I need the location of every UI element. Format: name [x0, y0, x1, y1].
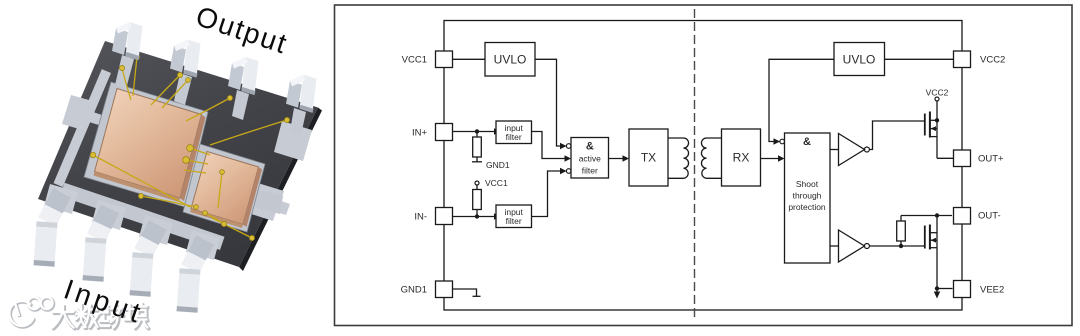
- svg-text:GND1: GND1: [401, 285, 427, 296]
- svg-text:&: &: [803, 136, 811, 148]
- svg-text:active: active: [579, 154, 601, 164]
- svg-text:Output: Output: [192, 0, 292, 59]
- svg-text:filter: filter: [506, 216, 522, 226]
- svg-text:VEE2: VEE2: [980, 285, 1004, 296]
- svg-text:Shoot: Shoot: [796, 179, 819, 189]
- svg-text:through: through: [793, 191, 822, 201]
- svg-text:TX: TX: [641, 151, 656, 165]
- svg-text:VCC1: VCC1: [402, 55, 427, 66]
- svg-text:RX: RX: [733, 151, 750, 165]
- svg-text:filter: filter: [506, 132, 522, 142]
- svg-text:UVLO: UVLO: [843, 53, 876, 67]
- svg-text:OUT-: OUT-: [978, 211, 1001, 222]
- svg-text:OUT+: OUT+: [978, 154, 1004, 165]
- svg-text:VCC2: VCC2: [980, 55, 1005, 66]
- svg-text:GND1: GND1: [486, 160, 510, 170]
- svg-text:UVLO: UVLO: [494, 53, 527, 67]
- svg-text:&: &: [586, 141, 594, 153]
- svg-text:protection: protection: [788, 202, 826, 212]
- svg-text:filter: filter: [582, 166, 598, 176]
- svg-text:VCC1: VCC1: [485, 178, 508, 188]
- svg-text:VCC2: VCC2: [926, 88, 949, 98]
- svg-text:IN-: IN-: [414, 212, 427, 223]
- svg-text:IN+: IN+: [412, 128, 428, 139]
